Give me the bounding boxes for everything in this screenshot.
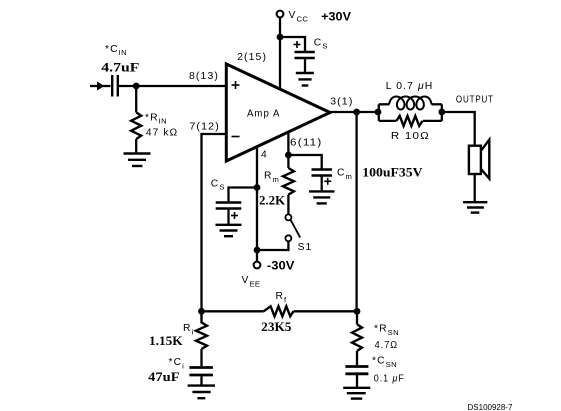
wire feedback rail left bbox=[202, 310, 264, 312]
ground (C_S bypass) bbox=[296, 73, 314, 86]
svg-text:CS: CS bbox=[211, 179, 225, 192]
wire pin 4 down bbox=[256, 146, 258, 261]
op-amp U1 Amp A bbox=[226, 64, 330, 161]
svg-text:VCC: VCC bbox=[289, 10, 309, 24]
wire pin 6 down bbox=[287, 132, 289, 155]
wire feedback rail right bbox=[294, 310, 358, 312]
capacitor C_m bbox=[312, 170, 333, 176]
wire VCC to pin 2 bbox=[279, 18, 281, 90]
op-amp + input mark bbox=[232, 81, 240, 89]
resistor R_f bbox=[264, 306, 294, 316]
node junction feedback right bbox=[354, 308, 361, 315]
wire R_m to switch bbox=[287, 195, 289, 215]
node junction VCC bbox=[277, 34, 284, 41]
ground (C_i) bbox=[188, 386, 215, 399]
op-amp - input mark bbox=[232, 136, 240, 138]
wire to C_S bypass bbox=[280, 37, 305, 51]
node junction output bbox=[353, 109, 360, 116]
wire pin6 to C_m bbox=[288, 155, 321, 169]
svg-text:2(15): 2(15) bbox=[237, 52, 267, 63]
plus mark C_S left bbox=[231, 212, 238, 219]
svg-text:R 10Ω: R 10Ω bbox=[391, 131, 430, 142]
resistor R 10ohm bbox=[396, 116, 422, 126]
svg-text:2.2K: 2.2K bbox=[259, 192, 286, 207]
node junction input bbox=[133, 83, 140, 90]
svg-text:*RIN: *RIN bbox=[145, 113, 167, 126]
speaker bbox=[469, 140, 489, 179]
input terminal arrow bbox=[90, 82, 111, 91]
wire C_S left to ground bbox=[227, 209, 229, 225]
resistor R_SN bbox=[352, 324, 362, 351]
svg-text:L 0.7 μH: L 0.7 μH bbox=[386, 81, 434, 92]
node junction pin4/CS bbox=[254, 184, 261, 191]
svg-text:CS: CS bbox=[314, 37, 328, 50]
svg-text:47 kΩ: 47 kΩ bbox=[146, 127, 178, 138]
svg-text:+30V: +30V bbox=[321, 12, 351, 24]
wire to resistor R bbox=[379, 120, 397, 122]
wire to output bbox=[442, 112, 475, 146]
wire R_SN to C_SN bbox=[356, 351, 358, 366]
plus mark C_S bbox=[294, 41, 301, 48]
wire node down to R_IN bbox=[135, 86, 137, 112]
svg-text:OUTPUT: OUTPUT bbox=[456, 95, 494, 106]
wire node to R_m bbox=[287, 155, 289, 168]
svg-text:*RSN: *RSN bbox=[374, 324, 399, 338]
capacitor C_SN bbox=[345, 367, 368, 374]
svg-text:Rm: Rm bbox=[264, 171, 279, 185]
node junction pin6 bbox=[285, 152, 292, 159]
wire C_i to ground bbox=[200, 375, 202, 386]
svg-text:100uF35V: 100uF35V bbox=[362, 164, 423, 179]
wire to C_S (left) bbox=[229, 188, 258, 202]
svg-text:DS100928-7: DS100928-7 bbox=[468, 403, 513, 411]
svg-text:23K5: 23K5 bbox=[261, 319, 292, 334]
svg-text:3(1): 3(1) bbox=[330, 97, 353, 108]
wire to inductor bbox=[379, 103, 389, 105]
node junction L right bbox=[438, 109, 445, 116]
resistor R_IN bbox=[131, 112, 141, 139]
ground (input) bbox=[124, 154, 151, 167]
L/R network right bracket bbox=[441, 104, 443, 121]
plus mark C_m bbox=[324, 178, 331, 185]
wire inductor to right bracket bbox=[432, 103, 442, 105]
svg-text:Cm: Cm bbox=[337, 168, 352, 182]
ground (speaker) bbox=[463, 202, 487, 212]
capacitor C_S (left, VEE bypass) bbox=[216, 203, 242, 209]
wire pin7 inverting input bbox=[202, 134, 227, 311]
svg-text:4.7Ω: 4.7Ω bbox=[375, 340, 399, 351]
wire speaker to ground bbox=[474, 174, 476, 202]
wire switch to VEE rail bbox=[257, 241, 288, 250]
wire node to R_SN bbox=[356, 311, 358, 324]
switch S1 blade bbox=[291, 220, 301, 238]
ground (C_SN) bbox=[343, 388, 370, 399]
capacitor C_S (VCC bypass) bbox=[295, 52, 315, 58]
svg-text:6(11): 6(11) bbox=[290, 137, 323, 148]
svg-text:-30V: -30V bbox=[267, 260, 295, 272]
terminal VEE bbox=[254, 262, 261, 269]
svg-text:VEE: VEE bbox=[242, 275, 261, 289]
svg-text:4: 4 bbox=[261, 150, 268, 161]
svg-text:1.15K: 1.15K bbox=[149, 333, 183, 348]
resistor R_m bbox=[283, 168, 294, 195]
L/R network left bracket bbox=[378, 104, 380, 121]
wire resistor to right bracket bbox=[423, 120, 442, 122]
wire R_IN to ground bbox=[135, 139, 137, 154]
switch S1 throw bbox=[285, 235, 291, 241]
resistor R_i bbox=[196, 311, 207, 349]
node junction L left bbox=[375, 109, 382, 116]
ground (C_S left) bbox=[216, 225, 242, 236]
switch S1 pole bbox=[285, 214, 291, 220]
svg-text:8(13): 8(13) bbox=[189, 71, 219, 82]
terminal VCC bbox=[277, 11, 284, 18]
svg-text:Amp A: Amp A bbox=[247, 108, 280, 119]
svg-text:7(12): 7(12) bbox=[189, 121, 220, 132]
svg-text:Rf: Rf bbox=[276, 291, 288, 305]
capacitor C_IN bbox=[112, 75, 118, 97]
wire R_i to C_i bbox=[200, 349, 202, 366]
ground (C_m) bbox=[309, 191, 335, 203]
wire C_SN to ground bbox=[356, 374, 358, 388]
wire output node down (100uF feed) bbox=[355, 112, 357, 311]
svg-text:*CSN: *CSN bbox=[372, 356, 397, 370]
svg-text:0.1 μF: 0.1 μF bbox=[374, 374, 405, 385]
node junction VEE bbox=[254, 247, 261, 254]
svg-text:Ri: Ri bbox=[183, 323, 194, 337]
wire C_m to ground bbox=[321, 176, 323, 192]
svg-text:*CIN: *CIN bbox=[105, 44, 127, 57]
svg-text:4.7uF: 4.7uF bbox=[101, 59, 139, 74]
wire input node to op-amp + input bbox=[119, 85, 226, 87]
svg-text:47uF: 47uF bbox=[148, 369, 179, 384]
capacitor C_i bbox=[189, 368, 213, 376]
svg-text:S1: S1 bbox=[298, 242, 313, 253]
wire C_S to ground bbox=[304, 58, 306, 73]
node junction feedback left bbox=[198, 308, 205, 315]
wire op-amp output bbox=[330, 111, 379, 113]
inductor L 0.7uH bbox=[389, 97, 432, 110]
